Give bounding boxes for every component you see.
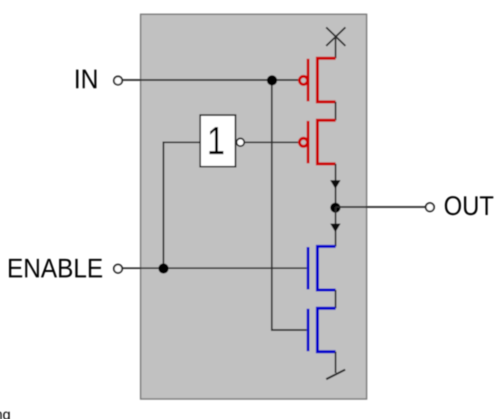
wire ENABLE horizontal to NMOS Q3 gate <box>123 267 307 269</box>
wire inverter output to PMOS Q2 gate <box>244 141 299 143</box>
transistor Q2 PMOS gate bar <box>307 121 310 163</box>
junction dot node IN <box>267 75 277 85</box>
arrowhead current direction down out of node <box>330 224 340 233</box>
transistor Q2 PMOS gate bubble <box>299 138 307 146</box>
terminal IN (open circle) <box>114 76 122 84</box>
inverter U1 output bubble <box>237 138 245 146</box>
inverter U1 label 1 <box>209 127 223 154</box>
transistor Q4 NMOS gate bar <box>307 309 310 351</box>
wire Q3 source to Q4 drain <box>335 290 337 308</box>
label IN <box>76 70 96 89</box>
junction dot node ENABLE <box>158 263 168 273</box>
wire OUT horizontal <box>336 206 426 208</box>
label ENABLE <box>9 259 102 278</box>
watermark text fragment bottom-left <box>0 412 10 419</box>
transistor Q4 NMOS channel <box>317 308 335 352</box>
transistor Q3 NMOS channel <box>317 246 335 290</box>
transistor Q3 NMOS gate bar <box>307 247 310 289</box>
body outline (IC boundary box) <box>141 14 367 399</box>
transistor Q1 PMOS channel <box>317 58 335 102</box>
wire IN vertical down to NMOS Q4 gate <box>272 80 307 330</box>
wire Q2 drain down to OUT node <box>335 164 337 207</box>
wire Q4 source down to ground <box>335 352 337 373</box>
transistor Q2 PMOS channel <box>317 120 335 164</box>
transistor Q1 PMOS gate bar <box>307 59 310 102</box>
wire OUT node down to NMOS Q3 <box>335 207 337 246</box>
arrowhead current direction down into node <box>330 180 340 189</box>
wire ENABLE stub up to inverter U1 input <box>163 142 199 268</box>
terminal OUT (open circle) <box>426 203 434 211</box>
wire supply stem <box>335 37 337 59</box>
wire Q1 drain to Q2 source <box>335 102 337 120</box>
wire IN horizontal to PMOS Q1 gate <box>122 79 299 81</box>
terminal ENABLE (open circle) <box>114 265 122 273</box>
ground (diagonal stroke) <box>326 370 345 380</box>
label OUT <box>445 196 493 215</box>
node OUT junction dot <box>330 203 340 213</box>
supply symbol (X) <box>326 27 345 46</box>
transistor Q1 PMOS gate bubble <box>299 76 307 84</box>
inverter U1 box <box>200 115 235 167</box>
